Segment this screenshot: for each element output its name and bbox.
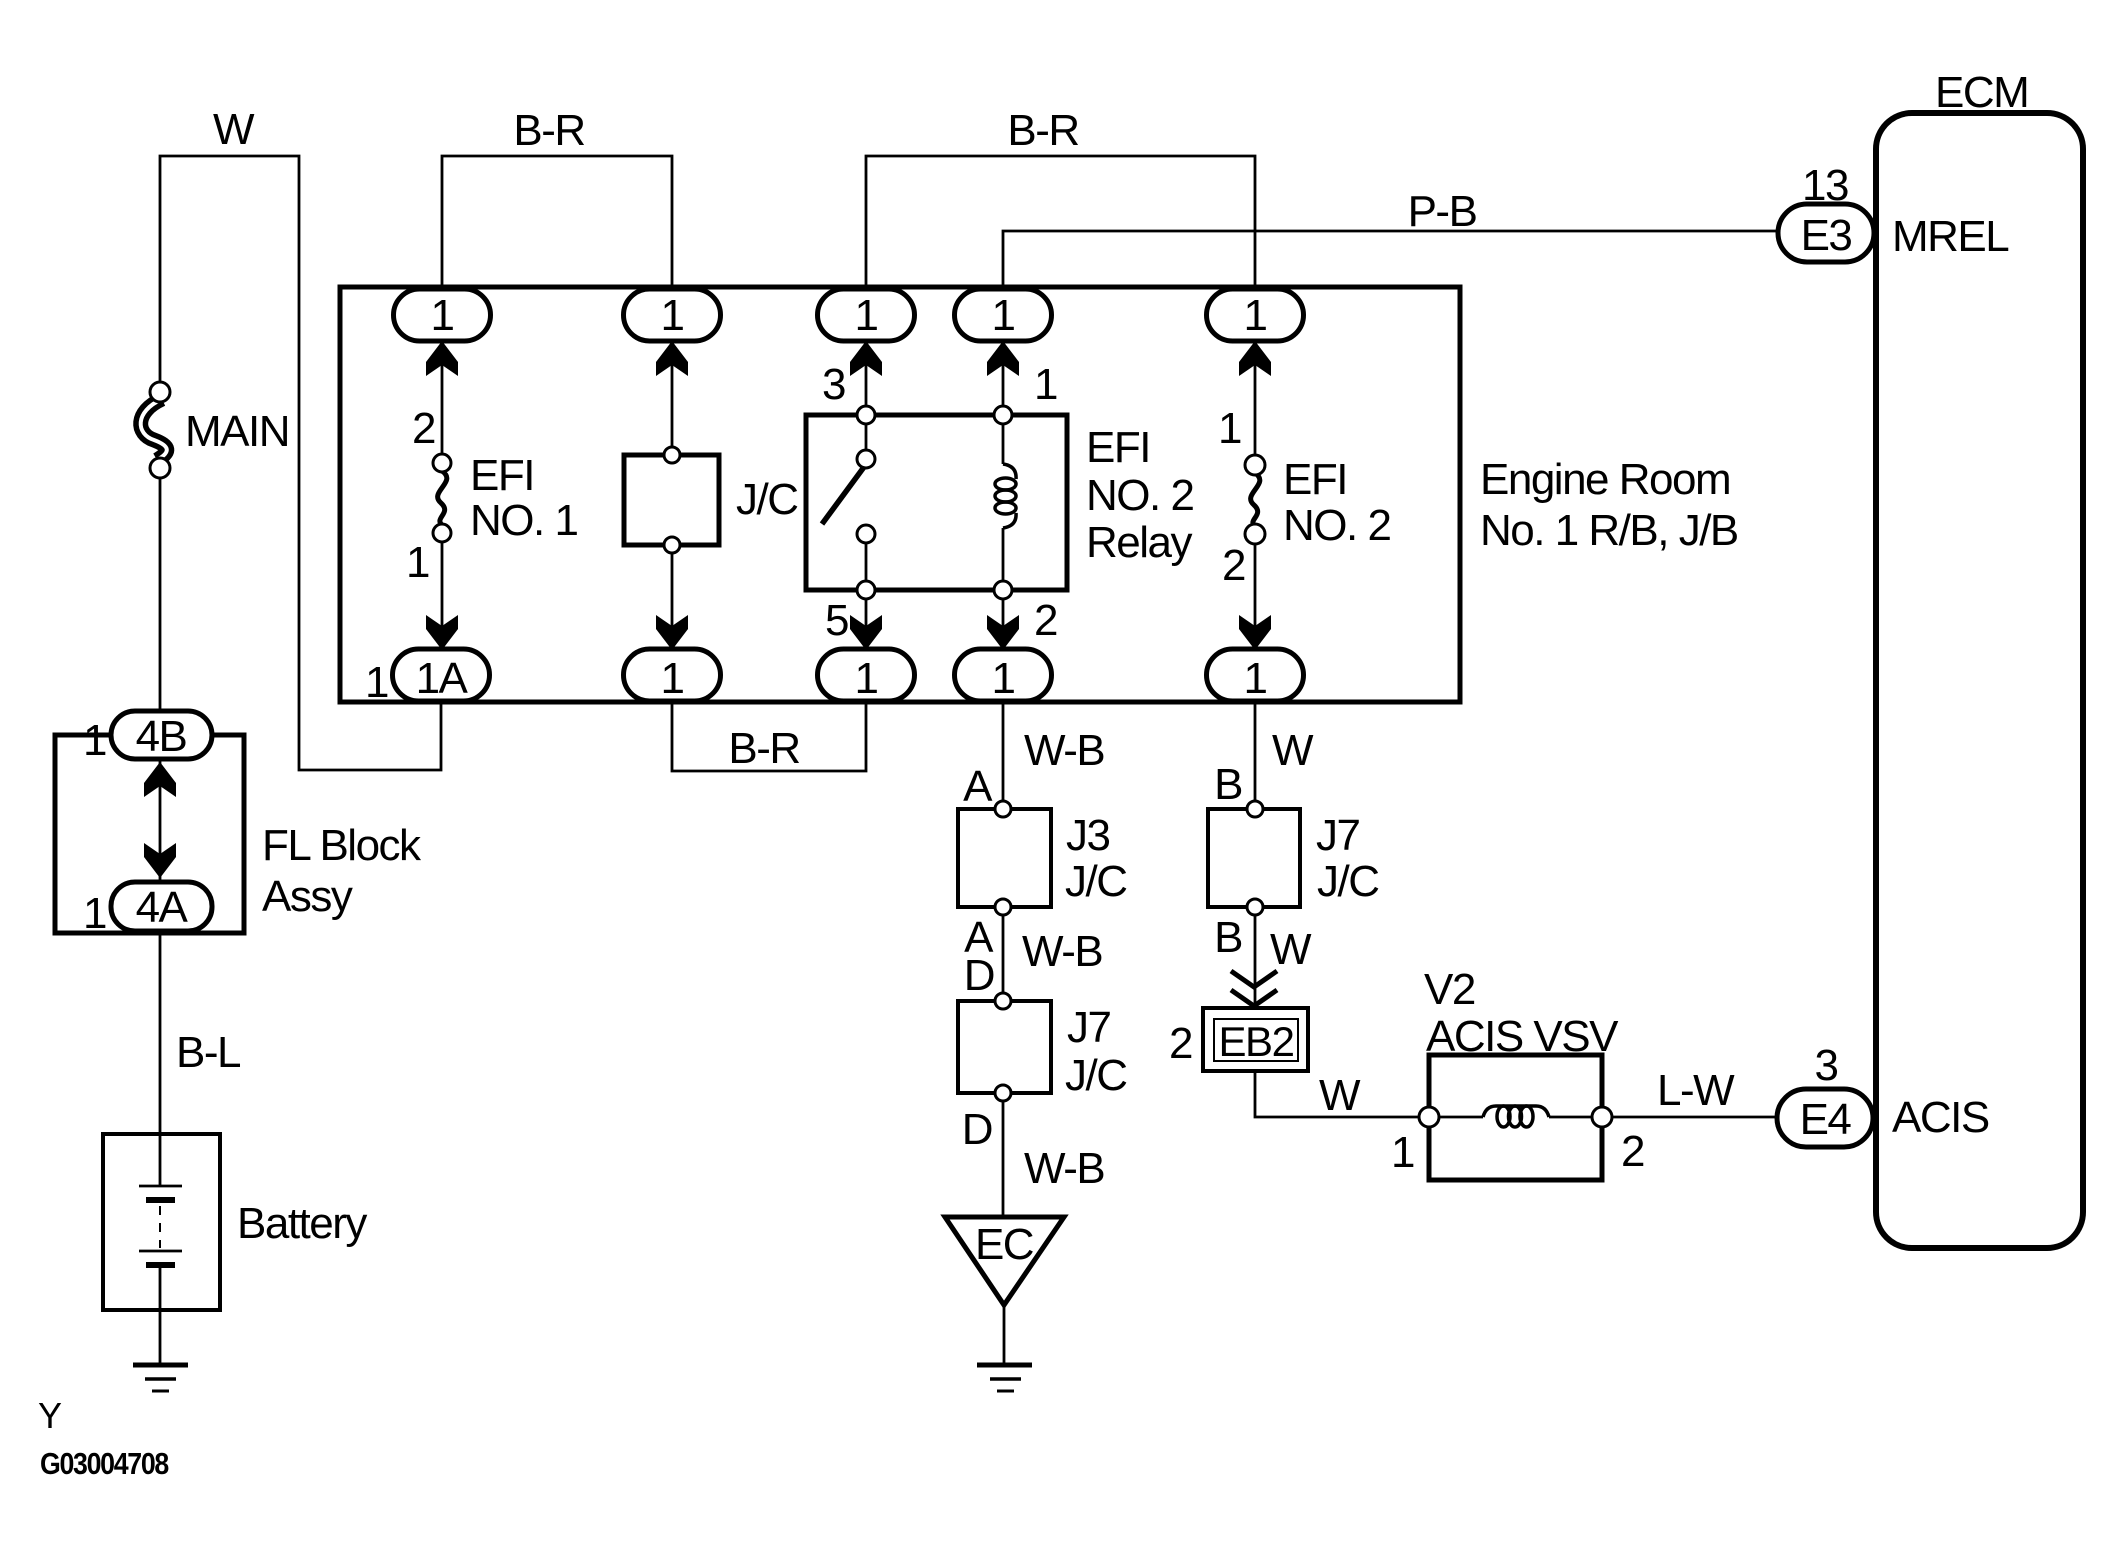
svg-text:ACIS: ACIS <box>1892 1093 1989 1142</box>
wire B-R right bridge <box>866 156 1255 289</box>
svg-text:1: 1 <box>661 654 684 703</box>
fuse EFI NO. 1 <box>433 341 451 649</box>
svg-text:2: 2 <box>412 404 435 453</box>
wire W-B J7 to EC <box>1002 1101 1005 1217</box>
svg-text:B-R: B-R <box>728 724 799 773</box>
connector 1 (top, column 5) <box>1207 289 1304 341</box>
connector 1 (bottom, column 2) <box>624 649 721 701</box>
arrow up (FL block) <box>144 762 176 797</box>
svg-text:ACIS VSV: ACIS VSV <box>1426 1012 1619 1061</box>
connector E4 (ECM pin 3 ACIS) <box>1777 1089 1873 1147</box>
junction connector J3 J/C <box>958 801 1051 915</box>
Engine Room No. 1 R/B, J/B box <box>340 287 1460 702</box>
svg-text:ECM: ECM <box>1935 68 2028 117</box>
svg-text:A: A <box>963 762 993 811</box>
fusible link MAIN <box>141 382 170 478</box>
connector 1 (bottom, column 5) <box>1207 649 1304 701</box>
svg-text:J7: J7 <box>1316 811 1360 860</box>
svg-text:1: 1 <box>83 889 106 938</box>
junction connector J7 J/C (left) <box>958 993 1051 1101</box>
svg-text:W: W <box>1319 1071 1361 1120</box>
svg-text:EC: EC <box>975 1220 1034 1269</box>
svg-text:J/C: J/C <box>1317 857 1379 906</box>
svg-text:1: 1 <box>992 654 1015 703</box>
svg-text:1: 1 <box>1244 654 1267 703</box>
svg-text:5: 5 <box>825 596 848 645</box>
svg-text:W-B: W-B <box>1024 1144 1104 1193</box>
svg-text:1: 1 <box>1244 291 1267 340</box>
svg-text:Relay: Relay <box>1086 518 1192 567</box>
arrow down (FL block) <box>144 843 176 878</box>
svg-text:D: D <box>964 951 994 1000</box>
svg-text:1: 1 <box>992 291 1015 340</box>
arrow up (column 1) <box>426 341 458 376</box>
svg-text:E4: E4 <box>1800 1095 1852 1144</box>
svg-text:1: 1 <box>83 716 106 765</box>
wire W-B connector 1 to J3 <box>1002 703 1005 801</box>
wire W connector 1 to J7 right <box>1254 703 1257 801</box>
svg-text:4A: 4A <box>136 883 189 932</box>
svg-text:1A: 1A <box>416 654 469 703</box>
connector 1 (top, column 3) <box>818 289 915 341</box>
arrow up (column 3) <box>850 341 882 376</box>
arrow down (column 2) <box>656 615 688 650</box>
svg-text:J/C: J/C <box>1065 1051 1127 1100</box>
svg-text:J7: J7 <box>1067 1003 1111 1052</box>
svg-text:MREL: MREL <box>1892 212 2009 261</box>
svg-text:EFI: EFI <box>1086 423 1150 472</box>
ground (battery) <box>133 1365 188 1391</box>
svg-text:MAIN: MAIN <box>185 407 289 456</box>
arrow down (column 3) <box>850 615 882 650</box>
arrow up (column 4) <box>987 341 1019 376</box>
svg-text:B: B <box>1214 760 1242 809</box>
svg-text:P-B: P-B <box>1408 187 1477 236</box>
svg-text:NO. 2: NO. 2 <box>1283 501 1390 550</box>
svg-text:J3: J3 <box>1066 811 1110 860</box>
relay EFI NO. 2 <box>806 341 1067 649</box>
wire W EB2 to VSV <box>1255 1071 1420 1117</box>
shield connector chevrons <box>1231 971 1277 1006</box>
junction connector J/C (in J/B) <box>624 341 719 649</box>
battery <box>103 1134 220 1310</box>
connector 4A <box>111 882 212 931</box>
wire W from MAIN fusible link up and over to connector 1A <box>160 156 441 770</box>
svg-text:B-R: B-R <box>1007 106 1078 155</box>
svg-text:1: 1 <box>661 291 684 340</box>
svg-text:Y: Y <box>38 1395 62 1436</box>
svg-text:E3: E3 <box>1801 211 1852 260</box>
connector 4B <box>111 711 212 759</box>
svg-text:13: 13 <box>1802 161 1848 210</box>
ECM box <box>1876 113 2083 1248</box>
wire B-R left bridge <box>442 156 672 289</box>
svg-text:Engine Room: Engine Room <box>1480 455 1730 504</box>
wire L-W VSV to E4 <box>1612 1116 1778 1119</box>
ground EC <box>945 1217 1064 1391</box>
svg-text:2: 2 <box>1034 596 1057 645</box>
svg-text:D: D <box>962 1105 992 1154</box>
svg-text:1: 1 <box>855 654 878 703</box>
wire FL block internal <box>159 759 162 882</box>
svg-text:NO. 2: NO. 2 <box>1086 471 1193 520</box>
wire battery to ground <box>159 1265 162 1363</box>
svg-text:B: B <box>1214 913 1242 962</box>
svg-text:W: W <box>213 105 255 154</box>
solenoid valve V2 ACIS VSV <box>1419 1055 1612 1180</box>
svg-text:B-L: B-L <box>176 1028 241 1077</box>
svg-text:NO. 1: NO. 1 <box>470 496 577 545</box>
wire W J7 to EB2 <box>1254 915 1257 1008</box>
wire W-B J3 to J7 <box>1002 915 1005 993</box>
svg-text:2: 2 <box>1169 1019 1192 1068</box>
svg-text:J/C: J/C <box>736 475 798 524</box>
svg-text:No. 1 R/B, J/B: No. 1 R/B, J/B <box>1480 506 1738 555</box>
wire B-R bottom U <box>672 703 866 771</box>
svg-text:Assy: Assy <box>262 872 353 921</box>
connector E3 (ECM pin 13 MREL) <box>1778 204 1874 262</box>
wire P-B to ECM E3 <box>1003 231 1778 289</box>
svg-text:1: 1 <box>1391 1128 1414 1177</box>
svg-text:W-B: W-B <box>1022 927 1102 976</box>
svg-text:1: 1 <box>855 291 878 340</box>
svg-text:1: 1 <box>365 658 388 707</box>
svg-text:2: 2 <box>1222 541 1245 590</box>
svg-text:4B: 4B <box>136 712 187 761</box>
connector 1 (bottom, column 4) <box>955 649 1052 701</box>
wire B-L FL block to battery <box>159 933 162 1186</box>
svg-text:Battery: Battery <box>237 1199 367 1248</box>
svg-text:1: 1 <box>431 291 454 340</box>
svg-text:V2: V2 <box>1424 965 1475 1014</box>
connector 1 (bottom, column 3) <box>818 649 915 701</box>
svg-text:1: 1 <box>1034 360 1057 409</box>
wire W 4B to MAIN <box>159 477 162 713</box>
arrow down (column 4) <box>987 615 1019 650</box>
connector 1A (bottom, column 1) <box>393 649 490 701</box>
arrow down (column 5) <box>1239 615 1271 650</box>
svg-text:3: 3 <box>822 360 845 409</box>
svg-text:EB2: EB2 <box>1219 1018 1294 1065</box>
svg-text:W: W <box>1272 726 1314 775</box>
svg-text:G03004708: G03004708 <box>40 1446 169 1481</box>
arrow down (column 1) <box>426 615 458 650</box>
svg-text:1: 1 <box>1218 404 1241 453</box>
connector 1 (top, column 2) <box>624 289 721 341</box>
svg-text:J/C: J/C <box>1065 857 1127 906</box>
svg-text:1: 1 <box>406 538 429 587</box>
FL Block Assy box <box>55 735 244 933</box>
svg-text:B-R: B-R <box>513 106 584 155</box>
svg-text:EFI: EFI <box>470 451 534 500</box>
svg-text:3: 3 <box>1815 1041 1838 1090</box>
connector 1 (top, column 1) <box>394 289 491 341</box>
connector 1 (top, column 4) <box>955 289 1052 341</box>
svg-text:FL Block: FL Block <box>262 821 422 870</box>
svg-text:EFI: EFI <box>1283 455 1347 504</box>
svg-text:W-B: W-B <box>1024 726 1104 775</box>
fuse EFI NO. 2 <box>1245 341 1265 649</box>
svg-text:W: W <box>1270 925 1312 974</box>
arrow up (column 2) <box>656 341 688 376</box>
connector EB2 <box>1203 1008 1308 1071</box>
svg-text:L-W: L-W <box>1657 1066 1735 1115</box>
svg-text:2: 2 <box>1621 1127 1644 1176</box>
junction connector J7 J/C (right) <box>1208 801 1300 915</box>
arrow up (column 5) <box>1239 341 1271 376</box>
